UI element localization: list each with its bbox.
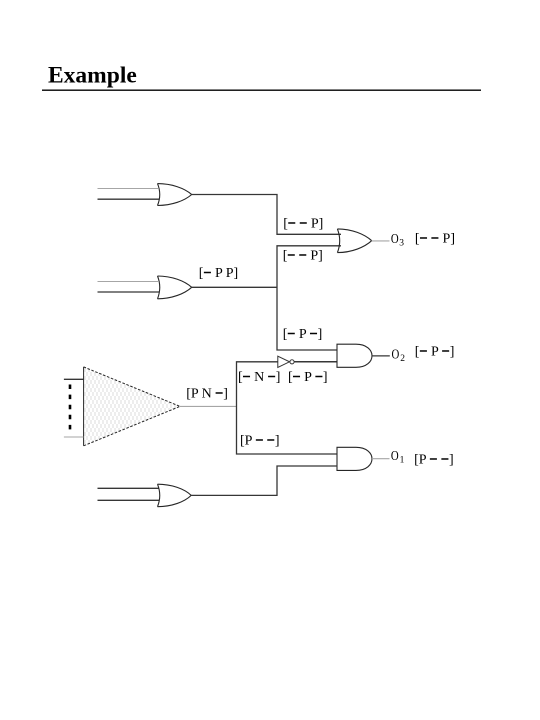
or-gate G3 (bottom) [158,484,192,507]
wire gray input B1 to OR gate G2 [98,281,159,283]
wire G2 output to node [192,286,278,288]
and-gate O1 [337,447,372,470]
svg-text:2: 2 [400,354,405,364]
or-gate O3 [337,229,371,253]
wire node to inverter input and down to O1 [237,362,338,454]
svg-text:[− P P]: [− P P] [199,266,238,281]
svg-text:[− P −]: [− P −] [283,327,323,342]
svg-text:[P − −]: [P − −] [240,434,280,449]
svg-text:1: 1 [400,455,405,465]
svg-text:[− − P]: [− − P] [283,248,323,263]
dashed ellipsis input marks of T1 [69,385,72,431]
or-gate G1 (top) [158,184,192,206]
svg-text:Example: Example [48,63,137,89]
svg-text:[− − P]: [− − P] [415,232,455,247]
wire G3 output to O1 bottom input [191,466,337,495]
wire O2 output stub [372,355,390,357]
svg-text:[− − P]: [− − P] [283,217,323,232]
svg-text:[− P −]: [− P −] [288,370,328,385]
svg-text:[P − −]: [P − −] [414,452,454,467]
wire gray input A1 to OR gate G1 [98,188,159,190]
svg-text:O: O [391,448,399,463]
big buffer triangle T1 [84,367,180,446]
wire T1 output (gray) [180,405,237,407]
wire black input to T1 top [64,378,84,380]
svg-text:O: O [391,231,399,246]
svg-text:[P N −]: [P N −] [186,387,228,402]
or-gate G2 (middle) [158,276,192,299]
svg-text:[− N −]: [− N −] [238,370,280,385]
wire O1 output stub (gray) [372,458,390,460]
wire inverter output to O2 [294,361,337,363]
inverter N1 [278,356,294,367]
svg-text:3: 3 [399,239,404,249]
wire black input B2 to OR gate G2 [98,291,160,293]
wire black input A2 to OR gate G1 [98,198,160,200]
wire gray input to T1 bottom [64,436,84,438]
title underline [42,89,481,91]
wire black input C1 to OR gate G3 [98,487,160,489]
wire O3 output stub [372,240,390,242]
and-gate O2 [337,344,372,367]
wire from G1 output to O3 top input [192,195,342,235]
svg-text:[− P −]: [− P −] [415,345,455,360]
wire black input C2 to OR gate G3 [98,499,160,501]
svg-text:O: O [392,346,400,361]
wire vertical bus to O3 bottom input and down to O2 [277,246,341,350]
